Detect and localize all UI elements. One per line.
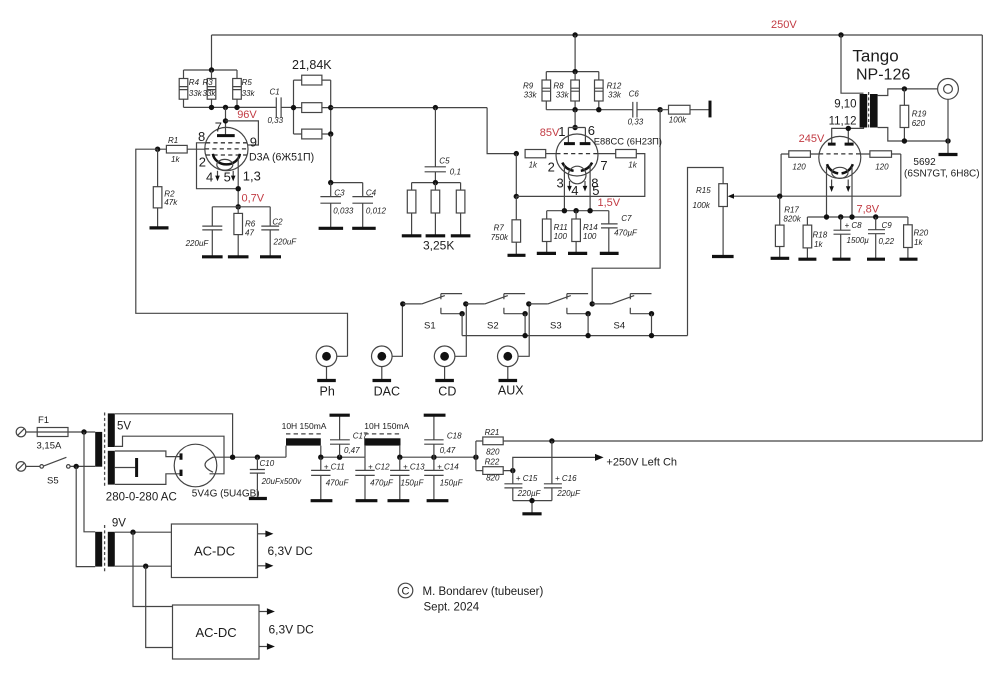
resistor R12 33k [595, 72, 622, 110]
svg-text:R22: R22 [485, 458, 500, 467]
resistor 1k grid right [598, 150, 638, 170]
svg-text:R6: R6 [245, 220, 256, 229]
svg-text:AC-DC: AC-DC [196, 625, 237, 640]
svg-text:7,8V: 7,8V [857, 203, 880, 215]
svg-text:470µF: 470µF [614, 228, 638, 237]
svg-text:0,1: 0,1 [450, 168, 461, 177]
svg-text:10H 150mA: 10H 150mA [282, 421, 327, 431]
ground R15 [712, 255, 734, 258]
resistor 21,84K top [294, 75, 331, 85]
svg-text:150µF: 150µF [401, 478, 425, 487]
resistor R4 33k [179, 70, 202, 107]
resistor R2 47k [153, 149, 178, 228]
wiper arrowhead [728, 194, 734, 199]
svg-text:1500µ: 1500µ [847, 236, 870, 245]
wire T2 to box2 top [133, 532, 173, 606]
svg-text:0,7V: 0,7V [242, 192, 265, 204]
svg-text:10H 150mA: 10H 150mA [364, 421, 409, 431]
svg-text:F1: F1 [38, 415, 49, 426]
svg-text:4: 4 [206, 169, 213, 184]
ground C3 [319, 227, 344, 230]
svg-text:0,47: 0,47 [440, 446, 456, 455]
switch S4 [590, 294, 655, 336]
svg-text:3: 3 [557, 175, 564, 190]
svg-text:280-0-280 AC: 280-0-280 AC [106, 492, 177, 504]
wire grid riser from coupling [487, 108, 516, 154]
svg-text:0,33: 0,33 [268, 116, 284, 125]
resistor R18 1k [803, 217, 828, 259]
capacitor C9 0,22 [868, 217, 895, 259]
svg-text:R11: R11 [554, 223, 568, 232]
resistor 3,25K right [456, 183, 465, 236]
wire rail segment 3 [400, 456, 476, 458]
svg-text:33k: 33k [189, 89, 203, 98]
ground C2 [260, 255, 281, 258]
svg-text:100k: 100k [669, 116, 687, 125]
terminal bar center tap [135, 458, 138, 477]
arrow out 1b [258, 565, 267, 567]
svg-text:150µF: 150µF [440, 478, 464, 487]
svg-text:220uF: 220uF [185, 239, 210, 248]
heater arrow V3 left [831, 180, 833, 187]
resistor 1k grid left [525, 150, 556, 170]
svg-text:220uF: 220uF [273, 238, 298, 247]
wire cathode pin3 [563, 165, 565, 211]
svg-text:8: 8 [198, 129, 205, 144]
wire selector bus [462, 335, 687, 337]
wire HV bottom to anode [115, 474, 180, 485]
svg-text:+ C8: + C8 [845, 221, 863, 230]
heater pin 4 arrow V2 [569, 181, 571, 186]
wire stage2 bottom box [516, 154, 645, 197]
svg-text:R21: R21 [485, 428, 500, 437]
tube V2 E88CC [556, 110, 598, 184]
fuse F1 3,15A [26, 415, 95, 452]
svg-text:R8: R8 [553, 81, 564, 90]
wire 5V bottom to filament [115, 436, 224, 474]
svg-text:1k: 1k [171, 155, 180, 164]
ground R2 [150, 226, 169, 229]
svg-text:R15: R15 [696, 186, 711, 195]
svg-text:D3A (6Ж51П): D3A (6Ж51П) [249, 151, 314, 163]
ground cap left [202, 255, 223, 258]
resistor 3,25K middle [431, 183, 440, 236]
svg-text:5V: 5V [117, 421, 131, 433]
svg-text:220µF: 220µF [556, 489, 581, 498]
terminal L [16, 427, 26, 437]
switch S5 [26, 457, 95, 486]
svg-text:2: 2 [199, 155, 206, 170]
svg-text:33k: 33k [203, 89, 217, 98]
input jack AUX [498, 304, 530, 380]
svg-text:7: 7 [215, 119, 222, 134]
transformer T1 HV winding [108, 451, 115, 485]
arrowhead +250V [595, 454, 604, 461]
svg-text:+ C12: + C12 [368, 463, 390, 472]
svg-text:E88CC (6Н23П): E88CC (6Н23П) [594, 135, 662, 146]
ground Ph [317, 379, 336, 382]
wire cathode right V3 [851, 167, 853, 218]
wire input to Ph [136, 149, 348, 356]
svg-text:220µF: 220µF [517, 489, 542, 498]
ground C7 [600, 252, 619, 255]
svg-text:DAC: DAC [374, 384, 400, 398]
svg-text:CD: CD [438, 384, 456, 398]
wire 1,5V rail [547, 210, 609, 212]
terminal bar after 100k [709, 101, 712, 118]
svg-text:820k: 820k [783, 215, 801, 224]
svg-text:120: 120 [875, 163, 889, 172]
wire plate feed [225, 107, 227, 135]
wire mains feed to T2 top [84, 432, 95, 532]
transformer T2 core [104, 525, 106, 574]
svg-text:+ C15: + C15 [516, 474, 538, 483]
ground R18 [798, 258, 816, 261]
capacitor C2 220uF [261, 207, 297, 257]
resistor R22 820 [476, 458, 513, 483]
ground AUX [499, 379, 518, 382]
svg-text:1,5V: 1,5V [598, 197, 621, 209]
svg-text:AC-DC: AC-DC [194, 543, 235, 558]
svg-text:R17: R17 [784, 206, 799, 215]
svg-text:3,25K: 3,25K [423, 239, 454, 253]
svg-text:20uFx500v: 20uFx500v [261, 477, 303, 486]
wire B+ drop to transformer [841, 35, 864, 93]
ground C8 [833, 258, 851, 261]
heater pin 4 arrow [217, 171, 219, 176]
svg-text:1k: 1k [914, 238, 923, 247]
svg-text:85V: 85V [540, 127, 560, 139]
transformer core [868, 92, 870, 130]
svg-text:47k: 47k [164, 198, 178, 207]
resistor R21 820 [476, 428, 982, 457]
svg-text:0,22: 0,22 [879, 237, 895, 246]
node dot R3 top [209, 67, 214, 72]
switch S3 [526, 294, 591, 336]
wire 250V top rail [212, 34, 983, 36]
svg-text:S5: S5 [47, 476, 59, 487]
wire interstage coupling [331, 107, 487, 109]
svg-text:R14: R14 [583, 223, 598, 232]
svg-text:120: 120 [792, 163, 806, 172]
resistor R3 33k [203, 70, 217, 107]
terminal bar C17 [330, 414, 350, 417]
node dot stage2 feed [572, 32, 577, 37]
svg-text:R20: R20 [914, 229, 929, 238]
arrow out 2a [259, 611, 268, 613]
wire B+ right edge drop [981, 35, 983, 441]
svg-text:1k: 1k [529, 160, 538, 169]
svg-text:820: 820 [486, 448, 500, 457]
svg-text:5: 5 [224, 169, 231, 184]
svg-text:0,47: 0,47 [344, 446, 360, 455]
svg-text:(6SN7GT, 6Н8С): (6SN7GT, 6Н8С) [904, 168, 980, 179]
svg-text:33k: 33k [242, 89, 256, 98]
ground R6 [228, 255, 249, 258]
transformer T1 core [104, 413, 106, 487]
svg-text:C3: C3 [334, 188, 345, 197]
ground C12 [356, 499, 378, 502]
wire cathode left V3 [826, 167, 828, 218]
wire anode resistors top rail [546, 71, 599, 73]
capacitor C13 150µF [390, 457, 425, 501]
wire 7,8V bias rail [807, 216, 908, 218]
ground DAC [373, 379, 392, 382]
capacitor 220uF (cathode left) [185, 207, 223, 257]
resistor 21,84K bottom [294, 129, 331, 139]
svg-text:C2: C2 [272, 218, 283, 227]
wire grid bus to wiper [731, 154, 901, 196]
ground R14 [568, 252, 587, 255]
svg-text:3,15A: 3,15A [37, 441, 62, 452]
svg-text:C18: C18 [447, 432, 462, 441]
resistor R20 1k [904, 217, 929, 259]
ground CD [435, 379, 454, 382]
node dot input [155, 147, 160, 152]
svg-text:6,3V DC: 6,3V DC [268, 544, 314, 558]
svg-text:5: 5 [592, 183, 599, 198]
svg-text:R9: R9 [523, 81, 534, 90]
input jack Ph [316, 346, 347, 380]
wire secondary bottom rail [878, 128, 948, 142]
output jack [938, 79, 959, 155]
svg-text:470µF: 470µF [370, 478, 394, 487]
choke 1 10H 150mA [282, 421, 327, 457]
wire +250V output [513, 457, 596, 470]
svg-text:620: 620 [912, 119, 926, 128]
wire screen tie to pin 9 [226, 121, 259, 145]
svg-text:+250V Left Ch: +250V Left Ch [606, 457, 677, 469]
wire 9V bottom [115, 565, 172, 567]
wire cathode network rail [212, 206, 270, 208]
svg-text:S3: S3 [550, 321, 562, 332]
svg-text:9V: 9V [112, 518, 126, 530]
capacitor C15 220µF [504, 471, 541, 501]
svg-text:+ C13: + C13 [403, 463, 425, 472]
wire stage2 output to S4 pole [592, 110, 660, 304]
wire stage2 feed [574, 35, 576, 72]
resistor R14 100 [572, 211, 598, 254]
AC-DC box 2 [173, 605, 260, 659]
copyright symbol [398, 583, 413, 598]
svg-text:C9: C9 [882, 221, 893, 230]
wire main B+ rail segment 1 [213, 456, 287, 458]
resistor 3,25K left [407, 183, 416, 236]
svg-text:7: 7 [600, 158, 607, 173]
ground output jack [939, 153, 958, 156]
transformer secondary [870, 94, 878, 128]
wire grid box pin8 to cathode [197, 143, 239, 189]
arrow out 2b [259, 646, 268, 648]
capacitor C8 1500µ [834, 217, 870, 259]
svg-text:C: C [402, 586, 410, 598]
wire branch to R21/R22 [475, 441, 477, 471]
terminal bar C18 [424, 414, 446, 417]
svg-text:R19: R19 [912, 110, 927, 119]
switch S1 [400, 294, 465, 336]
svg-text:R3: R3 [203, 78, 214, 87]
wire HV center tap [115, 467, 136, 469]
heater pin 5 arrow V2 [584, 181, 586, 186]
svg-text:C1: C1 [270, 88, 280, 97]
wire down to C3/C4 [331, 134, 363, 183]
svg-text:R12: R12 [607, 81, 622, 90]
svg-text:1k: 1k [814, 240, 823, 249]
resistor R7 750k [491, 196, 521, 255]
tube V3 5692 [819, 136, 861, 178]
svg-text:245V: 245V [799, 133, 825, 145]
transformer T1 5V winding [108, 413, 115, 447]
svg-text:+ C14: + C14 [437, 463, 459, 472]
svg-text:C4: C4 [366, 188, 377, 197]
capacitor C11 470uF [311, 457, 349, 501]
node dot transformer feed [838, 32, 843, 37]
ground 3,25K right [451, 234, 471, 237]
capacitor C17 0,47 [330, 415, 368, 457]
svg-text:C5: C5 [439, 157, 450, 166]
svg-text:0,033: 0,033 [333, 206, 354, 215]
svg-text:R5: R5 [242, 78, 253, 87]
svg-text:NP-126: NP-126 [856, 67, 910, 84]
svg-text:6,3V DC: 6,3V DC [269, 622, 315, 636]
svg-text:11,12: 11,12 [829, 116, 857, 128]
resistor R9 33k [523, 72, 551, 110]
svg-text:750k: 750k [491, 233, 509, 242]
svg-text:0,012: 0,012 [366, 206, 387, 215]
wire secondary top to jack [878, 89, 938, 96]
resistor 120 left [781, 151, 819, 172]
svg-text:M. Bondarev (tubeuser): M. Bondarev (tubeuser) [423, 586, 544, 598]
svg-text:C10: C10 [260, 459, 275, 468]
svg-text:R1: R1 [168, 136, 178, 145]
wire stage1 feed [211, 35, 213, 70]
ground C14 [427, 499, 449, 502]
svg-text:R7: R7 [494, 224, 505, 233]
transformer T1 primary [95, 432, 102, 467]
resistor R1 1k [158, 136, 205, 164]
wire R7 riser [515, 154, 517, 197]
wire mains feed to T2 bottom [76, 466, 95, 566]
wire T2 to box2 bottom [146, 566, 173, 647]
resistor R6 47 [234, 207, 256, 257]
svg-text:1,3: 1,3 [243, 169, 261, 184]
tube V1 D3A [205, 127, 248, 170]
capacitor C10 20uFx500v [250, 457, 302, 498]
wire cathode pin8 [589, 165, 591, 211]
arrow out 1a [258, 533, 267, 535]
svg-text:1k: 1k [628, 160, 637, 169]
svg-text:S1: S1 [424, 321, 436, 332]
21,84K parallel group [292, 58, 332, 134]
resistor R5 33k [233, 70, 256, 107]
svg-text:C6: C6 [629, 89, 640, 98]
svg-text:C7: C7 [621, 214, 632, 223]
AC-DC box 1 [171, 524, 257, 578]
resistor R11 100 [542, 211, 567, 254]
svg-text:9: 9 [250, 135, 257, 150]
svg-text:100k: 100k [693, 201, 711, 210]
transformer T2 9V winding [108, 532, 115, 567]
svg-text:100: 100 [554, 232, 568, 241]
svg-text:33k: 33k [556, 91, 570, 100]
svg-text:470uF: 470uF [326, 478, 350, 487]
transformer T2 primary [95, 532, 102, 567]
svg-text:100: 100 [583, 232, 597, 241]
wire primary bottom to plates [832, 128, 864, 145]
capacitor C6 0,33 [628, 89, 661, 126]
svg-text:R4: R4 [189, 78, 200, 87]
svg-text:5692: 5692 [913, 157, 936, 168]
resistor R19 620 [900, 89, 927, 141]
svg-text:Tango: Tango [852, 47, 898, 66]
capacitor C14 150µF [424, 457, 463, 501]
svg-text:2: 2 [548, 160, 555, 175]
capacitor C7 470uF [601, 211, 638, 254]
ground R7 [508, 254, 526, 257]
wire 5V top to output [115, 414, 233, 457]
switch S2 [463, 294, 528, 336]
wire HV top to anode [115, 451, 180, 457]
ground 3,25K left [402, 234, 422, 237]
resistor 100k output [660, 105, 709, 124]
svg-text:820: 820 [486, 473, 500, 482]
wire cathode down [237, 157, 239, 207]
wire 9V top [115, 531, 172, 533]
ground C4 [352, 227, 376, 230]
ground 3,25K middle [426, 234, 446, 237]
heater pin 5 arrow [232, 171, 234, 176]
svg-text:0,33: 0,33 [628, 118, 644, 127]
svg-text:47: 47 [245, 229, 254, 238]
svg-text:S2: S2 [487, 321, 499, 332]
svg-text:S4: S4 [614, 321, 626, 332]
capacitor C3 0,033 [320, 183, 353, 229]
svg-text:96V: 96V [237, 109, 257, 121]
capacitor C16 220µF [544, 441, 581, 501]
3,25K parallel group rail [412, 182, 461, 184]
svg-text:Ph: Ph [320, 384, 335, 398]
transformer Tango NP-126 primary [860, 94, 868, 128]
capacitor C18 0,47 [424, 415, 462, 457]
capacitor C12 470µF [355, 457, 394, 501]
potentiometer R15 100k [688, 168, 728, 336]
choke 2 10H 150mA [364, 421, 409, 457]
svg-text:33k: 33k [524, 91, 538, 100]
svg-text:250V: 250V [771, 19, 797, 31]
heater arrow V3 right [847, 180, 849, 187]
svg-text:Sept. 2024: Sept. 2024 [424, 602, 480, 614]
capacitor C1 0,33 [268, 88, 294, 125]
resistor R8 33k [553, 72, 579, 110]
capacitor C4 0,012 [352, 183, 386, 229]
wire 85V node rail [546, 109, 633, 111]
resistor R17 820k [775, 196, 801, 258]
ground R20 [900, 258, 918, 261]
ground C15/C16 [522, 512, 541, 515]
ground R11 [537, 252, 556, 255]
wire anode resistor top rail [184, 69, 238, 71]
input jack DAC [372, 304, 403, 380]
ground C13 [388, 499, 410, 502]
svg-text:+ C11: + C11 [324, 463, 345, 472]
svg-text:33k: 33k [608, 91, 622, 100]
ground R17 [771, 257, 790, 260]
ground C9 [867, 258, 885, 261]
wire 96V node rail [184, 106, 277, 108]
input jack CD [434, 304, 466, 380]
capacitor C5 0,1 [425, 108, 461, 183]
terminal N [16, 462, 26, 472]
